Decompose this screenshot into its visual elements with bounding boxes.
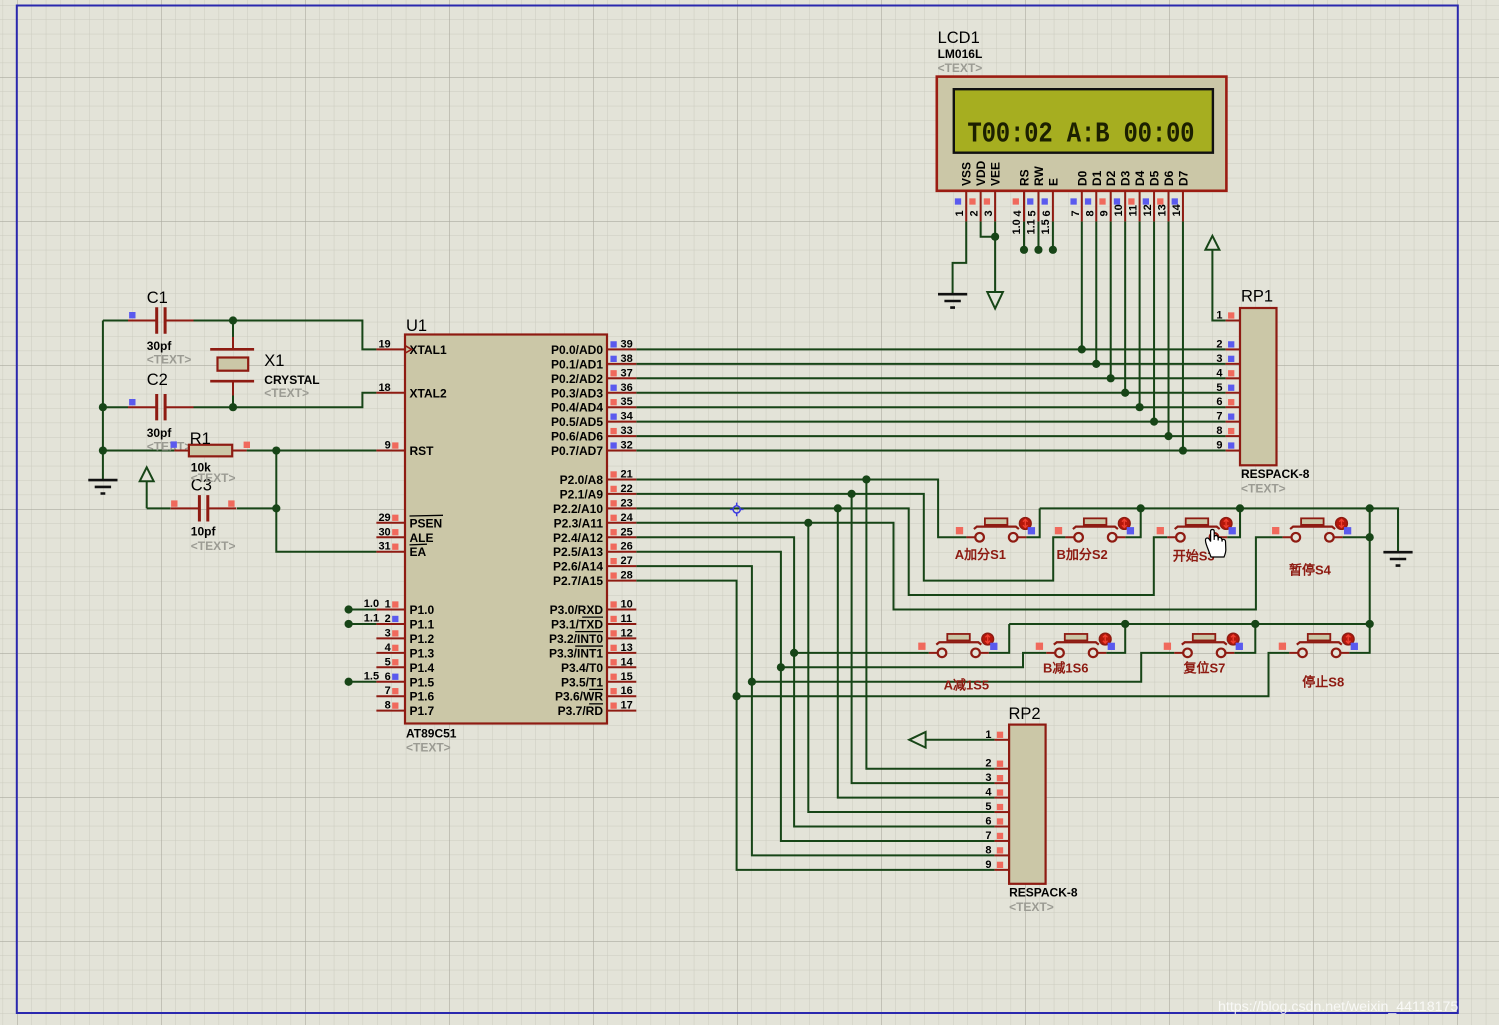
U1 pin 22 P2.1/A9 (560, 483, 637, 502)
junction net 1.5 (345, 678, 353, 686)
RP2 pin 6 (985, 816, 1009, 828)
svg-text:2: 2 (985, 758, 991, 770)
svg-text:<TEXT>: <TEXT> (147, 352, 192, 366)
junction D1/P0.1 (1092, 360, 1100, 368)
svg-text:X1: X1 (264, 352, 284, 370)
svg-text:RST: RST (410, 444, 435, 458)
svg-text:停止S8: 停止S8 (1302, 675, 1344, 690)
svg-text:6: 6 (385, 671, 391, 683)
svg-text:A加分S1: A加分S1 (955, 547, 1006, 562)
U1 pin 12 P3.2/INT0 (549, 627, 636, 646)
svg-text:1.1: 1.1 (1025, 219, 1037, 234)
svg-text:P2.0/A8: P2.0/A8 (560, 473, 604, 487)
LCD pin 11 D4 (1128, 170, 1148, 221)
wire P2.2 to S3 (636, 508, 1167, 595)
svg-text:38: 38 (621, 353, 633, 365)
wire P2.1 branch to RP2 pin 3 (852, 494, 995, 783)
svg-text:P0.6/AD6: P0.6/AD6 (551, 430, 603, 444)
ground below LCD (938, 294, 967, 307)
wire LCD pin 4 net 1.0 (1023, 221, 1025, 249)
wire P2.4 branch to S5 (794, 652, 929, 654)
svg-text:P0.0/AD0: P0.0/AD0 (551, 343, 603, 357)
RP1 pin 6 (1216, 396, 1240, 408)
svg-text:P1.0: P1.0 (410, 603, 435, 617)
wire S2 right to rail (1125, 508, 1140, 537)
junction D7/P0.7 (1179, 446, 1187, 454)
wire P2.6 branch to S7 (752, 653, 1174, 682)
wire right vertical S4/S8 (1349, 508, 1369, 652)
svg-text:1: 1 (1216, 310, 1222, 322)
U1 pin 5 P1.4 (376, 656, 434, 675)
svg-text:9: 9 (985, 859, 991, 871)
resistor R1 (171, 430, 251, 485)
LCD pin 6 E (1041, 178, 1061, 221)
svg-text:2: 2 (1216, 338, 1222, 350)
wire P1.1 net 1.1 (349, 623, 377, 625)
svg-text:LM016L: LM016L (938, 47, 983, 61)
junction D4/P0.4 (1136, 403, 1144, 411)
svg-text:D6: D6 (1162, 170, 1176, 186)
svg-text:D7: D7 (1176, 170, 1190, 186)
U1 pin 14 P3.4/T0 (561, 656, 636, 675)
wire P1.0 net 1.0 (349, 609, 377, 611)
svg-text:D4: D4 (1133, 170, 1147, 186)
wire P1.5 net 1.5 (349, 681, 377, 683)
wire LCD D6 down to P0.6 (1168, 221, 1170, 436)
wire C2 to XTAL2 (194, 393, 377, 407)
U1 pin 9 RST (376, 440, 434, 459)
junction rail1 S2 (1137, 504, 1145, 512)
svg-text:C1: C1 (147, 289, 168, 307)
svg-text:P0.3/AD3: P0.3/AD3 (551, 386, 603, 400)
svg-text:25: 25 (621, 526, 633, 538)
wire P2.5 to RP2 pin 7 (636, 552, 994, 841)
svg-text:12: 12 (1142, 204, 1154, 216)
svg-text:P0.1/AD1: P0.1/AD1 (551, 357, 603, 371)
junction P2.6/S7 (748, 678, 756, 686)
svg-text:C2: C2 (147, 371, 168, 389)
LCD pin 2 VDD (969, 160, 989, 221)
LCD pin 10 D3 (1113, 170, 1133, 221)
RP1 pin 3 (1216, 353, 1240, 365)
svg-text:P0.7/AD7: P0.7/AD7 (551, 444, 603, 458)
junction P2.3 branch (804, 519, 812, 527)
capacitor C3 (171, 476, 237, 553)
svg-text:15: 15 (621, 671, 633, 683)
svg-text:1: 1 (954, 210, 966, 216)
svg-text:P2.4/A12: P2.4/A12 (553, 531, 603, 545)
wire C3 left to power (147, 507, 171, 509)
RP2 pin 4 (985, 787, 1009, 799)
U1 pin 18 XTAL2 (376, 382, 447, 401)
junction D3/P0.3 (1121, 389, 1129, 397)
svg-text:VSS: VSS (960, 162, 974, 186)
junction P2.0 branch (862, 475, 870, 483)
junction D5/P0.5 (1150, 418, 1158, 426)
svg-text:36: 36 (621, 382, 633, 394)
svg-text:3: 3 (985, 772, 991, 784)
U1 pin 15 P3.5/T1 (561, 671, 636, 690)
junction RST / vertical (272, 446, 280, 454)
svg-text:7: 7 (385, 685, 391, 697)
svg-text:7: 7 (985, 830, 991, 842)
svg-text:P3.0/RXD: P3.0/RXD (550, 603, 604, 617)
svg-text:13: 13 (1157, 204, 1169, 216)
U1 pin 34 P0.5/AD5 (551, 411, 636, 430)
junction C3 / vertical (272, 504, 280, 512)
wire C3 right (237, 507, 276, 509)
wire P2.7 branch to S8 (737, 653, 1290, 696)
svg-text:P2.1/A9: P2.1/A9 (560, 487, 604, 501)
svg-text:RESPACK-8: RESPACK-8 (1241, 467, 1310, 481)
svg-text:P1.5: P1.5 (410, 675, 435, 689)
U1 pin 37 P0.2/AD2 (551, 367, 636, 386)
U1 pin 31 EA (376, 541, 427, 560)
U1 pin 19 XTAL1 (376, 338, 447, 357)
svg-text:23: 23 (621, 497, 633, 509)
LCD LCD1 LM016L (937, 29, 1227, 191)
wire R1 to RST (247, 450, 377, 452)
wire rail to R1 (103, 450, 174, 452)
wire P0.4 to RP1 pin 6 (636, 406, 1225, 408)
svg-text:RW: RW (1032, 166, 1046, 186)
svg-text:P3.5/T1: P3.5/T1 (561, 675, 603, 689)
svg-text:8: 8 (985, 844, 991, 856)
button S3 (1157, 518, 1236, 542)
svg-text:3: 3 (1216, 353, 1222, 365)
U1 pin 11 P3.1/TXD (551, 613, 636, 632)
svg-text:29: 29 (378, 512, 390, 524)
wire LCD pin 5 net 1.1 (1037, 221, 1039, 249)
terminal at RP2 pin 1 (909, 732, 925, 748)
svg-text:4: 4 (385, 642, 392, 654)
svg-text:4: 4 (1012, 210, 1024, 217)
svg-text:34: 34 (621, 411, 634, 423)
wire P2.1 to S2 (636, 494, 1065, 581)
junction P2.2 branch (834, 504, 842, 512)
button S8 (1279, 633, 1358, 657)
button S4 (1272, 518, 1351, 542)
svg-text:39: 39 (621, 338, 633, 350)
RP2 pin 3 (985, 772, 1009, 784)
svg-text:<TEXT>: <TEXT> (1009, 900, 1054, 914)
svg-text:9: 9 (385, 440, 391, 452)
svg-text:5: 5 (385, 656, 391, 668)
wire S6 right to rail2 (1106, 624, 1125, 653)
junction net 1.5 at LCD (1049, 246, 1057, 254)
svg-text:10: 10 (1113, 204, 1125, 216)
junction rail2 S6 (1121, 620, 1129, 628)
svg-text:LCD1: LCD1 (938, 29, 980, 47)
svg-text:6: 6 (1216, 396, 1222, 408)
svg-text:1.0: 1.0 (1011, 219, 1023, 234)
LCD pin 9 D2 (1099, 170, 1119, 221)
resistor pack RP2 RESPACK-8 (1009, 705, 1078, 914)
junction X1 bottom (229, 403, 237, 411)
U1 pin 6 P1.5 (376, 671, 434, 690)
svg-text:P3.1/TXD: P3.1/TXD (551, 617, 603, 631)
svg-text:3: 3 (385, 627, 391, 639)
U1 pin 36 P0.3/AD3 (551, 382, 636, 401)
U1 pin 39 P0.0/AD0 (551, 338, 636, 357)
svg-text:14: 14 (1171, 203, 1183, 216)
wire S1 right to rail (1026, 508, 1039, 537)
svg-text:P1.2: P1.2 (410, 632, 435, 646)
svg-text:18: 18 (378, 382, 390, 394)
RP1 pin 8 (1216, 425, 1240, 437)
wire P2.0 to S1 (636, 479, 966, 537)
svg-text:1.5: 1.5 (1040, 219, 1052, 234)
wire S3 right to rail (1227, 508, 1240, 537)
wire P2.3 branch to RP2 pin 5 (808, 523, 994, 812)
svg-text:P0.2/AD2: P0.2/AD2 (551, 372, 603, 386)
wire LCD D3 down to P0.3 (1124, 221, 1126, 392)
RP1 pin 2 (1216, 338, 1240, 350)
U1 pin 10 P3.0/RXD (550, 599, 637, 618)
svg-text:暂停S4: 暂停S4 (1289, 563, 1332, 578)
junction X1 top (229, 316, 237, 324)
wire P2.0 branch to RP2 pin 2 (866, 479, 994, 768)
capacitor C1 (128, 289, 194, 366)
svg-text:复位S7: 复位S7 (1183, 661, 1226, 676)
svg-text:3: 3 (983, 210, 995, 216)
svg-text:8: 8 (1216, 425, 1222, 437)
svg-text:P2.7/A15: P2.7/A15 (553, 574, 603, 588)
wire LCD D4 down to P0.4 (1139, 221, 1141, 407)
svg-text:1: 1 (985, 729, 991, 741)
wire S7 right to rail2 (1234, 624, 1255, 653)
U1 pin 21 P2.0/A8 (560, 468, 637, 487)
junction D0/P0.0 (1078, 345, 1086, 353)
svg-text:<TEXT>: <TEXT> (264, 386, 309, 400)
svg-text:<TEXT>: <TEXT> (191, 539, 236, 553)
svg-text:https://blog.csdn.net/weixin_4: https://blog.csdn.net/weixin_44118175 (1218, 999, 1458, 1015)
LCD pin 1 VSS (954, 162, 974, 221)
svg-text:P0.5/AD5: P0.5/AD5 (551, 415, 603, 429)
U1 pin 30 ALE (376, 526, 433, 545)
junction S4 vertical (1366, 533, 1374, 541)
svg-text:P3.4/T0: P3.4/T0 (561, 661, 603, 675)
U1 pin 23 P2.2/A10 (553, 497, 636, 515)
svg-text:30pf: 30pf (147, 426, 173, 440)
U1 pin 38 P0.1/AD1 (551, 353, 636, 372)
svg-text:VDD: VDD (974, 160, 988, 186)
RP2 pin 8 (985, 844, 1009, 856)
svg-text:P1.4: P1.4 (410, 661, 435, 675)
U1 pin 16 P3.6/WR (555, 685, 636, 704)
svg-text:B加分S2: B加分S2 (1057, 547, 1108, 562)
svg-text:5: 5 (1216, 382, 1222, 394)
IC U1 AT89C51 (405, 317, 607, 755)
RP1 pin 1 (1216, 310, 1240, 322)
U1 pin 1 P1.0 (376, 599, 434, 618)
wire rail 1 to ground (1040, 508, 1398, 551)
svg-text:27: 27 (621, 555, 633, 567)
junction net 1.1 at LCD (1034, 246, 1042, 254)
svg-text:12: 12 (621, 627, 633, 639)
RP1 pin 5 (1216, 382, 1240, 394)
svg-text:7: 7 (1070, 210, 1082, 216)
svg-text:A减1S5: A减1S5 (944, 678, 990, 693)
svg-text:2: 2 (969, 210, 981, 216)
svg-text:11: 11 (1128, 205, 1140, 217)
svg-text:30: 30 (378, 526, 390, 538)
svg-text:P1.6: P1.6 (410, 690, 435, 704)
resistor pack RP1 RESPACK-8 (1240, 288, 1310, 496)
svg-text:35: 35 (621, 396, 633, 408)
junction rail2 S7 (1251, 620, 1259, 628)
wire LCD VEE down to terminal (994, 221, 996, 292)
crystal X1 (210, 337, 319, 400)
junction RST rail (99, 446, 107, 454)
svg-text:11: 11 (621, 613, 633, 625)
wire P2.4 to RP2 pin 6 (636, 537, 994, 826)
wire P0.0 to RP1 pin 2 (636, 348, 1225, 350)
power terminal +5V at RP1 (1205, 236, 1219, 250)
wire P2.5 branch to S6 (781, 653, 1046, 667)
svg-text:<TEXT>: <TEXT> (938, 61, 983, 75)
svg-text:1.0: 1.0 (364, 598, 379, 610)
wire P0.6 to RP1 pin 8 (636, 435, 1225, 437)
U1 pin 25 P2.4/A12 (553, 526, 636, 545)
svg-text:U1: U1 (406, 317, 427, 335)
capacitor C2 (128, 371, 194, 453)
svg-text:1.5: 1.5 (364, 670, 379, 682)
wire X1 top lead (232, 321, 234, 338)
svg-text:7: 7 (1216, 411, 1222, 423)
svg-text:26: 26 (621, 541, 633, 553)
svg-text:P2.6/A14: P2.6/A14 (553, 560, 603, 574)
svg-text:P0.4/AD4: P0.4/AD4 (551, 401, 603, 415)
LCD pin 12 D5 (1142, 170, 1162, 221)
svg-text:ALE: ALE (410, 531, 434, 545)
wire C2 left to rail (103, 406, 128, 408)
svg-text:RESPACK-8: RESPACK-8 (1009, 886, 1078, 900)
U1 pin 27 P2.6/A14 (553, 555, 636, 574)
svg-text:VEE: VEE (989, 162, 1003, 186)
button S7 (1164, 633, 1243, 657)
svg-text:<TEXT>: <TEXT> (406, 741, 451, 755)
svg-text:5: 5 (1026, 210, 1038, 216)
wire X1 bottom lead (232, 396, 234, 408)
LCD pin 8 D1 (1084, 170, 1104, 221)
wire P2.3 to S4 (636, 523, 1282, 610)
wire S5 right to rail2 (989, 624, 1009, 653)
svg-text:P3.2/INT0: P3.2/INT0 (549, 632, 603, 646)
junction P2.4/S5 (790, 649, 798, 657)
svg-text:37: 37 (621, 367, 633, 379)
svg-text:9: 9 (1099, 210, 1111, 216)
U1 pin 26 P2.5/A13 (553, 541, 636, 560)
U1 pin 8 P1.7 (376, 700, 434, 719)
RP2 pin 9 (985, 859, 1009, 871)
U1 pin 4 P1.3 (376, 642, 434, 661)
svg-text:EA: EA (410, 545, 427, 559)
LCD pin 14 D7 (1171, 170, 1191, 221)
junction P2.5/S6 (777, 663, 785, 671)
LCD pin 4 RS (1012, 169, 1032, 221)
svg-text:14: 14 (621, 656, 634, 668)
U1 pin 3 P1.2 (376, 627, 434, 646)
svg-text:31: 31 (378, 541, 390, 553)
svg-text:CRYSTAL: CRYSTAL (264, 373, 319, 387)
ground left (102, 451, 104, 481)
svg-text:D3: D3 (1119, 170, 1133, 186)
svg-text:13: 13 (621, 642, 633, 654)
U1 pin 35 P0.4/AD4 (551, 396, 636, 415)
svg-text:28: 28 (621, 570, 633, 582)
svg-text:10pf: 10pf (191, 525, 217, 539)
wire LCD VSS to ground (953, 221, 967, 293)
wire LCD VDD to VEE node (981, 221, 995, 236)
svg-text:P2.2/A10: P2.2/A10 (553, 502, 603, 516)
wire LCD D7 down to P0.7 (1182, 221, 1184, 450)
junction net 1.1 (345, 620, 353, 628)
svg-text:<TEXT>: <TEXT> (191, 471, 236, 485)
svg-text:P1.7: P1.7 (410, 704, 435, 718)
svg-text:B减1S6: B减1S6 (1043, 661, 1089, 676)
RP1 pin 9 (1216, 440, 1240, 452)
svg-text:8: 8 (385, 700, 391, 712)
svg-text:P3.7/RD: P3.7/RD (558, 704, 604, 718)
mouse hand cursor (1205, 529, 1225, 557)
svg-text:4: 4 (1216, 367, 1223, 379)
svg-text:24: 24 (621, 512, 634, 524)
button S1 (956, 518, 1035, 542)
svg-text:10: 10 (621, 599, 633, 611)
wire C1 to XTAL1 (194, 321, 377, 350)
wire S4 right to vertical (1343, 536, 1370, 538)
svg-text:2: 2 (385, 613, 391, 625)
svg-text:33: 33 (621, 425, 633, 437)
svg-text:D2: D2 (1104, 170, 1118, 186)
svg-text:XTAL2: XTAL2 (410, 386, 447, 400)
svg-text:D0: D0 (1075, 170, 1089, 186)
svg-text:32: 32 (621, 440, 633, 452)
wire LCD D0 down to P0.0 (1081, 221, 1083, 349)
svg-text:P2.5/A13: P2.5/A13 (553, 545, 603, 559)
svg-text:T00:02 A:B 00:00: T00:02 A:B 00:00 (967, 118, 1194, 150)
U1 pin 2 P1.1 (376, 613, 434, 632)
svg-text:RP2: RP2 (1009, 705, 1041, 723)
svg-text:RP1: RP1 (1241, 288, 1273, 306)
wire LCD pin 6 net 1.5 (1052, 221, 1054, 249)
svg-text:D5: D5 (1148, 170, 1162, 186)
ground right of S4 (1383, 552, 1412, 565)
U1 pin 17 P3.7/RD (558, 700, 637, 719)
svg-text:P1.3: P1.3 (410, 646, 435, 660)
wire P2.6 to RP2 pin 8 (636, 566, 994, 855)
svg-text:6: 6 (985, 816, 991, 828)
wire LCD D2 down to P0.2 (1110, 221, 1112, 378)
wire LCD D5 down to P0.5 (1153, 221, 1155, 421)
svg-text:AT89C51: AT89C51 (406, 727, 457, 741)
svg-text:4: 4 (985, 787, 992, 799)
wire P0.1 to RP1 pin 3 (636, 363, 1225, 365)
svg-text:R1: R1 (190, 430, 211, 448)
wire C1 left to rail (103, 320, 128, 322)
RP2 pin 7 (985, 830, 1009, 842)
svg-text:16: 16 (621, 685, 633, 697)
junction P2.1 branch (848, 490, 856, 498)
U1 pin 28 P2.7/A15 (553, 570, 636, 589)
junction C2 rail (99, 403, 107, 411)
svg-text:5: 5 (985, 801, 991, 813)
U1 pin 24 P2.3/A11 (554, 512, 637, 531)
svg-text:P3.6/WR: P3.6/WR (555, 690, 603, 704)
junction rail1 right vertical (1366, 504, 1374, 512)
svg-text:19: 19 (378, 338, 390, 350)
